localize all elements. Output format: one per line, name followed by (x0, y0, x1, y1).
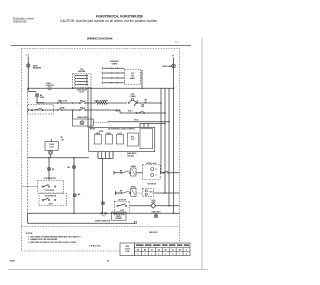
junction row3 (168, 205, 170, 207)
wire left rail (26, 88, 28, 213)
junction bus2-2 (173, 212, 175, 214)
junction eoc-top (164, 123, 165, 124)
junction bus1-a (72, 87, 74, 89)
door switch2 contacts (42, 199, 43, 200)
connector block P2 (73, 74, 92, 88)
contact rowB (57, 109, 58, 110)
wire N drop (172, 58, 175, 89)
broil element box (112, 212, 127, 220)
wire rail N (172, 88, 175, 213)
wire riser m (141, 70, 144, 88)
relay blade (134, 101, 138, 107)
terminal row2 (114, 191, 117, 195)
contact MOL2 (79, 109, 80, 110)
svg-text:10/98: 10/98 (10, 261, 16, 263)
relay pivot (131, 98, 133, 100)
wire A4 (137, 102, 161, 105)
wire color table grid (120, 242, 192, 258)
contact row2 (121, 192, 122, 193)
lock box riser (50, 139, 53, 142)
motor box (73, 119, 94, 126)
wire doorsw left (22, 186, 38, 188)
wire A1 (62, 102, 80, 105)
wire motor drop (71, 110, 74, 119)
wire B1 (28, 109, 57, 112)
EOC box (89, 128, 155, 152)
junction bus1-d (173, 87, 175, 89)
svg-text:3. SWITCHES SHOWN IN OFF POSI: 3. SWITCHES SHOWN IN OFF POSITION, DOOR … (28, 242, 77, 244)
wire eoc ground (101, 159, 104, 214)
junction row1 (160, 172, 162, 174)
wire C (108, 120, 170, 123)
wire rail2 (164, 88, 167, 193)
junction L1 B (28, 109, 29, 110)
wire A3 (107, 102, 127, 105)
svg-text:PLUG: PLUG (79, 92, 84, 94)
svg-text:OVEN LIGHTS: OVEN LIGHTS (77, 117, 89, 119)
svg-text:FGF379WJCA, FGF379WJCB: FGF379WJCA, FGF379WJCB (96, 15, 143, 19)
svg-text:TOD 2: TOD 2 (128, 111, 133, 113)
wire bus-lock (28, 156, 89, 159)
switch on bus1 (48, 87, 51, 90)
wire L1 drop (27, 57, 30, 89)
junction bus1-c (141, 87, 143, 89)
svg-text:OVEN: OVEN (46, 83, 52, 85)
junction rail1 A (160, 102, 162, 104)
EOC relay1 (94, 135, 101, 144)
oven lamp (172, 64, 176, 68)
latch contacts (117, 205, 118, 206)
interlock switch1 (47, 167, 50, 170)
thermal switch (35, 94, 39, 98)
junction rail3 C (168, 121, 170, 123)
contact row1r (163, 172, 164, 173)
fan diamond (151, 203, 156, 208)
wire bus2 (28, 212, 180, 215)
wire row3a (130, 204, 152, 207)
latch box (115, 201, 130, 213)
wire rail1 (160, 88, 163, 173)
wire bus1 (28, 87, 173, 90)
latch switch contact (31, 109, 32, 110)
coil bake (131, 168, 136, 176)
svg-text:5995414259: 5995414259 (13, 20, 27, 23)
svg-text:DOOR SWITCH: DOOR SWITCH (44, 178, 57, 180)
junction bus2-1 (73, 212, 75, 214)
lock motor circ1 (151, 168, 154, 171)
wire bus3 corner (26, 213, 29, 223)
junction ll-1 (48, 157, 50, 159)
svg-text:LIGHT SW: LIGHT SW (46, 85, 55, 87)
wire bus3 (28, 222, 136, 225)
lock motor box (143, 165, 161, 180)
clock lamp (134, 221, 137, 224)
wire row1c (160, 171, 163, 174)
relay coil (142, 104, 144, 106)
svg-text:F-31: F-31 (175, 42, 179, 44)
relay arm2 (133, 100, 137, 103)
page right border (201, 38, 204, 270)
EOC top stubs (139, 124, 142, 128)
wire row1a (118, 171, 122, 174)
diagram dashed border (22, 49, 180, 251)
mdl box (143, 188, 154, 196)
svg-text:ELECTRONIC OVEN CONTROL: ELECTRONIC OVEN CONTROL (108, 128, 136, 130)
svg-text:NOTES:: NOTES: (26, 233, 33, 235)
wire L1 branch (27, 88, 30, 91)
terminal row1 (113, 171, 116, 175)
svg-text:TOD 3: TOD 3 (134, 120, 139, 122)
header separator line (11, 44, 191, 47)
door lock box (45, 142, 58, 151)
contact row1 (121, 172, 122, 173)
EOC relay2 (105, 135, 112, 144)
svg-text:WB 2: WB 2 (115, 111, 119, 113)
door switch1 contacts (42, 186, 43, 187)
wire row3b (155, 204, 179, 207)
wire sw drop1 (48, 158, 51, 181)
relay dotR (136, 102, 137, 103)
resistor broil (113, 213, 125, 215)
contact TOD2 (136, 112, 137, 113)
schematic bottom dashed line (22, 225, 180, 227)
wire P2-EOC b (90, 88, 93, 127)
wire row2c (154, 192, 180, 195)
EOC module 2 (140, 129, 153, 149)
wire sw-out2 (141, 77, 143, 79)
wire sw-out1 (141, 72, 143, 74)
oven light lamp (154, 214, 158, 218)
junction P2a (87, 88, 88, 89)
wire lock motor (49, 149, 52, 153)
table header (136, 245, 144, 246)
door switch box2 (39, 194, 67, 206)
contact MOL1 (79, 102, 80, 103)
EOC module (127, 133, 138, 146)
junction row2 (164, 192, 166, 194)
resistor bake element (96, 102, 107, 105)
wire row1b (136, 171, 143, 174)
wire eoc-top (140, 122, 165, 125)
latch switch box (28, 105, 54, 115)
svg-text:UNITS: UNITS (112, 63, 118, 65)
wire B3 (86, 109, 120, 112)
wire sw drop2 (73, 158, 76, 214)
surface unit leads (102, 67, 103, 70)
gas valve switch (102, 202, 105, 205)
EOC relay3 (116, 135, 123, 144)
relay arm1 (128, 100, 132, 103)
mdl circles (145, 190, 147, 192)
wire tsw drop (36, 97, 39, 103)
wire row2b (136, 192, 143, 194)
wire motor out (93, 122, 107, 124)
connector P2 pins (75, 74, 76, 77)
lock motor circ2 (151, 174, 154, 177)
interlock switch2 (72, 165, 75, 168)
connector pair (101, 212, 103, 214)
lock motor (48, 150, 52, 154)
EOC bottom stubs (97, 152, 100, 159)
wire B2 (62, 109, 80, 112)
wire P2-EOC a (87, 88, 90, 127)
junction B (72, 109, 74, 111)
svg-text:1. DISCONNECT POWER BEFORE SE: 1. DISCONNECT POWER BEFORE SERVICING UNI… (28, 236, 80, 238)
wire rail3 (168, 88, 171, 206)
wire row2a (115, 192, 122, 195)
infinite switch box (125, 70, 141, 85)
svg-text:OVEN DOOR: OVEN DOOR (77, 90, 88, 92)
wire A2 (86, 102, 97, 105)
interlock switch3 (73, 194, 76, 197)
svg-text:WIRING DIAGRAM: WIRING DIAGRAM (87, 37, 113, 41)
junction bus1-b (90, 87, 92, 89)
junction rail2 B (164, 112, 166, 114)
page bottom border (8, 268, 208, 271)
contact time lock (57, 102, 58, 103)
eoc stub bus (98, 157, 113, 160)
svg-text:CAUTION: Use the part number: CAUTION: Use the part number on all orde… (60, 19, 157, 23)
junction ll-2 (73, 157, 75, 159)
coil broil (131, 188, 136, 196)
door switch box1 (38, 180, 64, 193)
relay dotL (128, 102, 129, 103)
breaker TOD (27, 64, 31, 68)
junction A (72, 102, 74, 104)
lamp motor (80, 121, 84, 125)
junction bus1-L1 (27, 87, 29, 89)
